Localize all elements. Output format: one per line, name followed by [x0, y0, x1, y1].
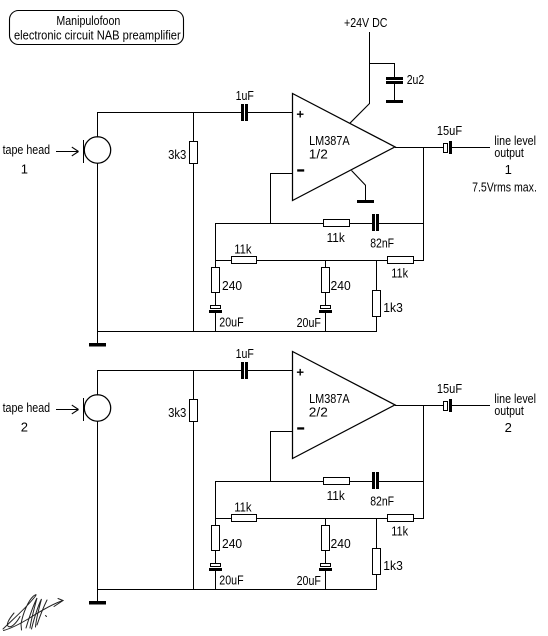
- svg-text:7.5Vrms max.: 7.5Vrms max.: [472, 180, 537, 195]
- svg-text:+24V DC: +24V DC: [344, 15, 388, 30]
- svg-text:2: 2: [505, 420, 512, 435]
- svg-text:2/2: 2/2: [309, 404, 328, 419]
- svg-text:Manipulofoon: Manipulofoon: [56, 13, 120, 28]
- svg-text:electronic circuit NAB preampl: electronic circuit NAB preamplifier: [14, 27, 181, 42]
- svg-text:2: 2: [21, 420, 28, 435]
- svg-text:1: 1: [505, 162, 512, 177]
- svg-text:1/2: 1/2: [309, 146, 328, 161]
- svg-text:2u2: 2u2: [407, 72, 425, 87]
- svg-text:1: 1: [21, 162, 28, 177]
